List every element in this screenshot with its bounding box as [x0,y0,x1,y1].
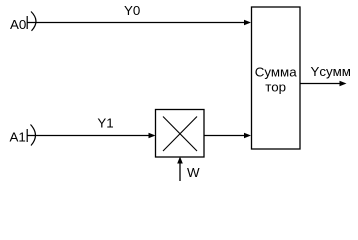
svg-text:W: W [187,165,200,180]
wire Y1 (A1 to multiplier) [27,135,149,137]
arrowhead multiplier wire into summator [244,133,251,139]
arrowhead wire Y1 into multiplier [149,133,156,139]
svg-text:A1: A1 [10,129,26,144]
input connector A0 (terminal bar + arc) [27,12,36,31]
output wire Yсумм [300,83,341,85]
arrowhead wire Y0 into summator [244,20,251,26]
svg-text:Y0: Y0 [124,3,140,18]
multiplier M1 (box with X) [156,110,205,158]
svg-text:Сумма: Сумма [255,64,297,79]
input connector A1 (terminal bar + arc) [27,125,35,146]
svg-text:Y1: Y1 [97,115,113,130]
svg-text:тор: тор [265,80,286,95]
svg-text:Yсумм: Yсумм [311,64,351,79]
summator U1 (box) [252,7,301,149]
wire Y0 (A0 to summator) [27,22,245,24]
control input W (vertical arrow into multiplier) [177,157,183,182]
wire multiplier to summator [204,135,245,137]
svg-text:A0: A0 [10,17,26,32]
arrowhead output wire [340,81,347,87]
